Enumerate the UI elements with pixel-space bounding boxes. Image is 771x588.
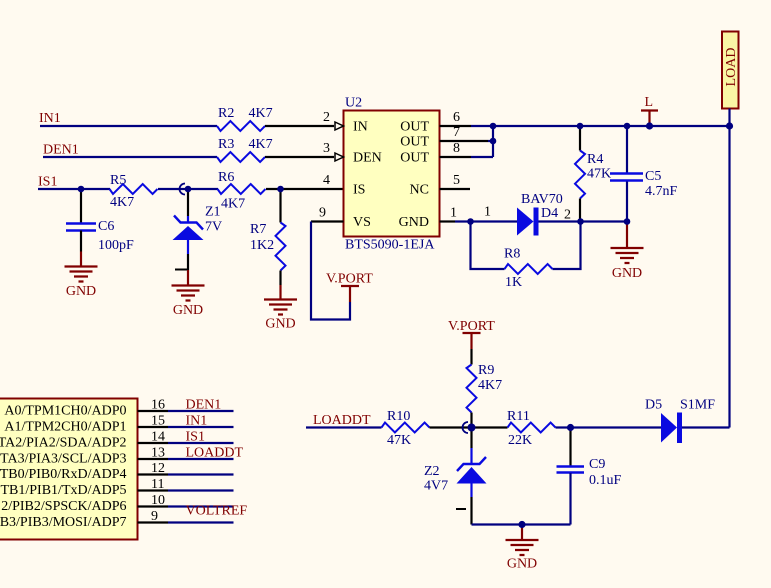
svg-text:B3/PIB3/MOSI/ADP7: B3/PIB3/MOSI/ADP7 [0,515,127,530]
svg-text:D5: D5 [645,398,662,413]
svg-text:IS1: IS1 [186,430,205,445]
svg-text:9: 9 [151,509,158,524]
svg-text:0.1uF: 0.1uF [589,473,622,488]
svg-text:R2: R2 [218,106,234,121]
svg-text:R7: R7 [250,222,266,237]
svg-text:7: 7 [453,125,460,140]
svg-text:VOLTREF: VOLTREF [186,504,248,519]
svg-text:R4: R4 [587,152,603,167]
svg-text:15: 15 [151,414,165,429]
ground stem Z1 [187,270,189,286]
wire R11 to C9 junction [556,426,662,428]
wire C9 to bottom [569,473,571,525]
wire VS net down [311,222,350,320]
svg-text:4K7: 4K7 [249,106,273,121]
power port L stem [641,111,658,127]
connector LOAD body [722,32,739,109]
pin 10 line [138,505,169,507]
svg-text:A0/TPM1CH0/ADP0: A0/TPM1CH0/ADP0 [4,404,126,419]
svg-text:Z1: Z1 [205,205,221,220]
svg-text:4K7: 4K7 [221,197,245,212]
svg-text:4: 4 [323,173,330,188]
zener Z2 [457,448,487,497]
node C5 bottom [624,218,631,225]
svg-text:Z2: Z2 [424,464,440,479]
wire IN1 horizontal [40,125,217,127]
node IS1/Z1 [185,186,192,193]
svg-text:NC: NC [410,183,429,198]
zener Z1 [173,216,204,255]
svg-text:4V7: 4V7 [424,479,448,494]
capacitor C5 [610,174,643,181]
svg-text:OUT: OUT [400,151,429,166]
wire IS1 to R7 [279,189,281,223]
wire D5 to right vertical [682,426,730,428]
wire junction to C9 [569,428,571,467]
svg-text:A1/TPM2CH0/ADP1: A1/TPM2CH0/ADP1 [4,420,126,435]
node OUT7 [490,138,497,145]
resistor R8 [505,264,553,274]
node pin1/R8 [467,218,474,225]
resistor R9 [467,365,477,413]
svg-text:7V: 7V [205,220,222,235]
svg-text:OUT: OUT [400,120,429,135]
svg-text:L: L [645,95,654,110]
node bottom gnd [518,521,525,528]
svg-text:22K: 22K [508,433,532,448]
power port V.PORT bottom stem [463,333,481,349]
wire R10 to junction [430,426,472,428]
svg-text:GND: GND [66,284,96,299]
node L [646,122,653,129]
pin 8 stub [440,156,472,158]
svg-text:4K7: 4K7 [110,195,134,210]
svg-text:R9: R9 [478,363,494,378]
resistor R10 [382,423,430,433]
wire IS1 to C6 [80,189,82,224]
node R4 bottom [577,218,584,225]
svg-text:V.PORT: V.PORT [448,319,495,334]
svg-text:11: 11 [151,477,164,492]
svg-text:9: 9 [319,206,326,221]
ground stem C6 [80,252,82,267]
ground stem bottom [521,525,523,541]
svg-text:BTS5090-1EJA: BTS5090-1EJA [345,238,435,253]
svg-text:47K: 47K [587,167,611,182]
wire bottom horizontal [472,523,571,525]
svg-text:TA3/PIA3/SCL/ADP3: TA3/PIA3/SCL/ADP3 [0,452,126,467]
ground bars Z1 [172,286,205,301]
pin 3 arrow [335,153,344,161]
wire OUT bus vertical [471,125,493,157]
ground stem C5 [626,222,628,249]
svg-text:100pF: 100pF [98,238,134,253]
svg-text:5: 5 [453,173,460,188]
minus mark of Z1 [175,269,187,271]
svg-text:DEN: DEN [353,151,382,166]
svg-text:13: 13 [151,446,165,461]
resistor R7 [276,223,286,271]
svg-text:BAV70: BAV70 [521,192,563,207]
wire Z1 to gnd [187,254,189,270]
svg-text:IN1: IN1 [39,111,61,126]
resistor R4 [575,151,585,199]
svg-text:1K: 1K [505,275,522,290]
pin 13 line [138,458,169,460]
wire R3 to pin3 [265,156,334,158]
svg-text:3: 3 [323,141,330,156]
wire R6 to pin4 [266,188,344,190]
node LOAD corner [726,122,733,129]
svg-text:1K2: 1K2 [250,238,274,253]
wire junction to Z2 [470,428,472,449]
svg-text:6: 6 [453,110,460,125]
wire IS1 to Z1 [187,189,189,216]
svg-text:C6: C6 [98,219,114,234]
pin 9 stub [311,220,344,222]
pin 5 stub [440,188,471,190]
wire R2 to pin2 [265,125,334,127]
svg-text:LOAD: LOAD [724,48,739,87]
capacitor C9 [557,467,585,473]
wire pin1 to D4 [455,220,517,222]
svg-text:8: 8 [453,141,460,156]
node R11/C9 [567,424,574,431]
pin 6 stub [440,125,472,127]
svg-text:GND: GND [265,317,295,332]
svg-text:C9: C9 [589,457,605,472]
wire D4 to C5 [539,220,628,222]
wire R8 loop [471,222,581,270]
resistor R2 [217,121,265,131]
ground bars R7 [264,300,297,315]
svg-text:10: 10 [151,493,165,508]
svg-text:S1MF: S1MF [680,398,715,413]
pin 7 stub [440,140,489,142]
svg-text:R5: R5 [110,173,126,188]
svg-text:R3: R3 [218,137,234,152]
svg-text:4.7nF: 4.7nF [645,184,678,199]
svg-text:LOADDT: LOADDT [313,413,371,428]
svg-text:4K7: 4K7 [478,378,502,393]
resistor R5 [110,184,158,194]
svg-text:R6: R6 [218,170,234,185]
pin 9 line [138,521,169,523]
node C5 top [624,123,631,130]
wire DEN1 horizontal [43,156,217,158]
wire LOAD stem [728,109,730,127]
resistor R11 [508,423,556,433]
wire C5 bottom lead [626,182,628,222]
wire C5 top lead [626,126,628,173]
svg-text:VS: VS [353,215,371,230]
wire OUT main horizontal [471,125,730,127]
pin 14 line [138,442,169,444]
svg-text:R8: R8 [504,247,520,262]
svg-text:DEN1: DEN1 [186,398,222,413]
svg-text:R11: R11 [507,409,530,424]
wire R5 to R6 [158,188,218,190]
node R9/R10/R11/Z2 [468,424,476,432]
junction arc LOADDT [463,422,469,433]
junction arc IS1 [180,184,186,195]
wire IS1 horizontal [38,188,110,190]
svg-text:1: 1 [484,205,491,220]
wire junction to R11 [472,426,508,428]
svg-text:TB1/PIB1/TxD/ADP5: TB1/PIB1/TxD/ADP5 [0,483,126,498]
svg-text:1: 1 [450,206,457,221]
ground bars C6 [65,267,98,282]
svg-text:OUT: OUT [400,135,429,150]
svg-text:2: 2 [323,110,330,125]
wire R7 to gnd [279,271,281,286]
power port V.PORT stem [341,286,359,302]
connector P1 body [0,399,138,540]
wire Z2 to bottom [470,497,472,525]
capacitor C6 [66,224,96,231]
op-amp U2 body [344,111,440,237]
svg-text:IS: IS [353,183,365,198]
svg-text:LOADDT: LOADDT [186,446,244,461]
pin 1 stub [440,220,456,222]
resistor R3 [217,152,265,162]
wire C6 to gnd [80,231,82,252]
ground bars C5 [611,248,644,263]
svg-text:IN: IN [353,120,368,135]
node R4 top [577,123,584,130]
svg-text:D4: D4 [541,206,558,221]
node IS1/R7 [277,186,284,193]
svg-text:IS1: IS1 [38,175,57,190]
svg-text:TA2/PIA2/SDA/ADP2: TA2/PIA2/SDA/ADP2 [0,436,127,451]
svg-text:2/PIB2/SPSCK/ADP6: 2/PIB2/SPSCK/ADP6 [1,499,126,514]
svg-text:V.PORT: V.PORT [326,272,373,287]
pin 11 line [138,489,169,491]
minus mark of Z2 [456,508,466,510]
wire R4 bottom lead [579,199,581,222]
svg-text:14: 14 [151,430,165,445]
ground stem R7 [279,285,281,300]
svg-text:C5: C5 [645,169,661,184]
resistor R6 [218,184,266,194]
svg-text:47K: 47K [387,433,411,448]
pin 16 line [138,410,169,412]
wire R9 to junction [470,413,472,428]
svg-text:GND: GND [173,303,203,318]
svg-text:GND: GND [399,215,429,230]
svg-text:R10: R10 [387,409,410,424]
ground bars bottom [506,540,539,555]
svg-text:TB0/PIB0/RxD/ADP4: TB0/PIB0/RxD/ADP4 [0,467,127,482]
node IS1/C6 [78,186,85,193]
svg-text:2: 2 [564,208,571,223]
svg-text:DEN1: DEN1 [43,143,79,158]
svg-text:IN1: IN1 [186,414,208,429]
wire V.PORT to R9 [470,349,472,365]
svg-text:U2: U2 [345,96,362,111]
node OUT6 [490,123,497,130]
svg-text:GND: GND [612,266,642,281]
pin 15 line [138,426,169,428]
pin 2 arrow [335,122,344,130]
svg-text:4K7: 4K7 [249,137,273,152]
svg-text:16: 16 [151,398,165,413]
svg-text:GND: GND [507,557,537,572]
svg-text:12: 12 [151,461,165,476]
diode D5 S1MF [661,413,680,444]
wire LOADDT [306,426,382,428]
diode D4 BAV70 [517,208,536,236]
wire R4 top lead [579,126,581,151]
pin 12 line [138,473,169,475]
wire right vertical to D5 [728,126,730,428]
